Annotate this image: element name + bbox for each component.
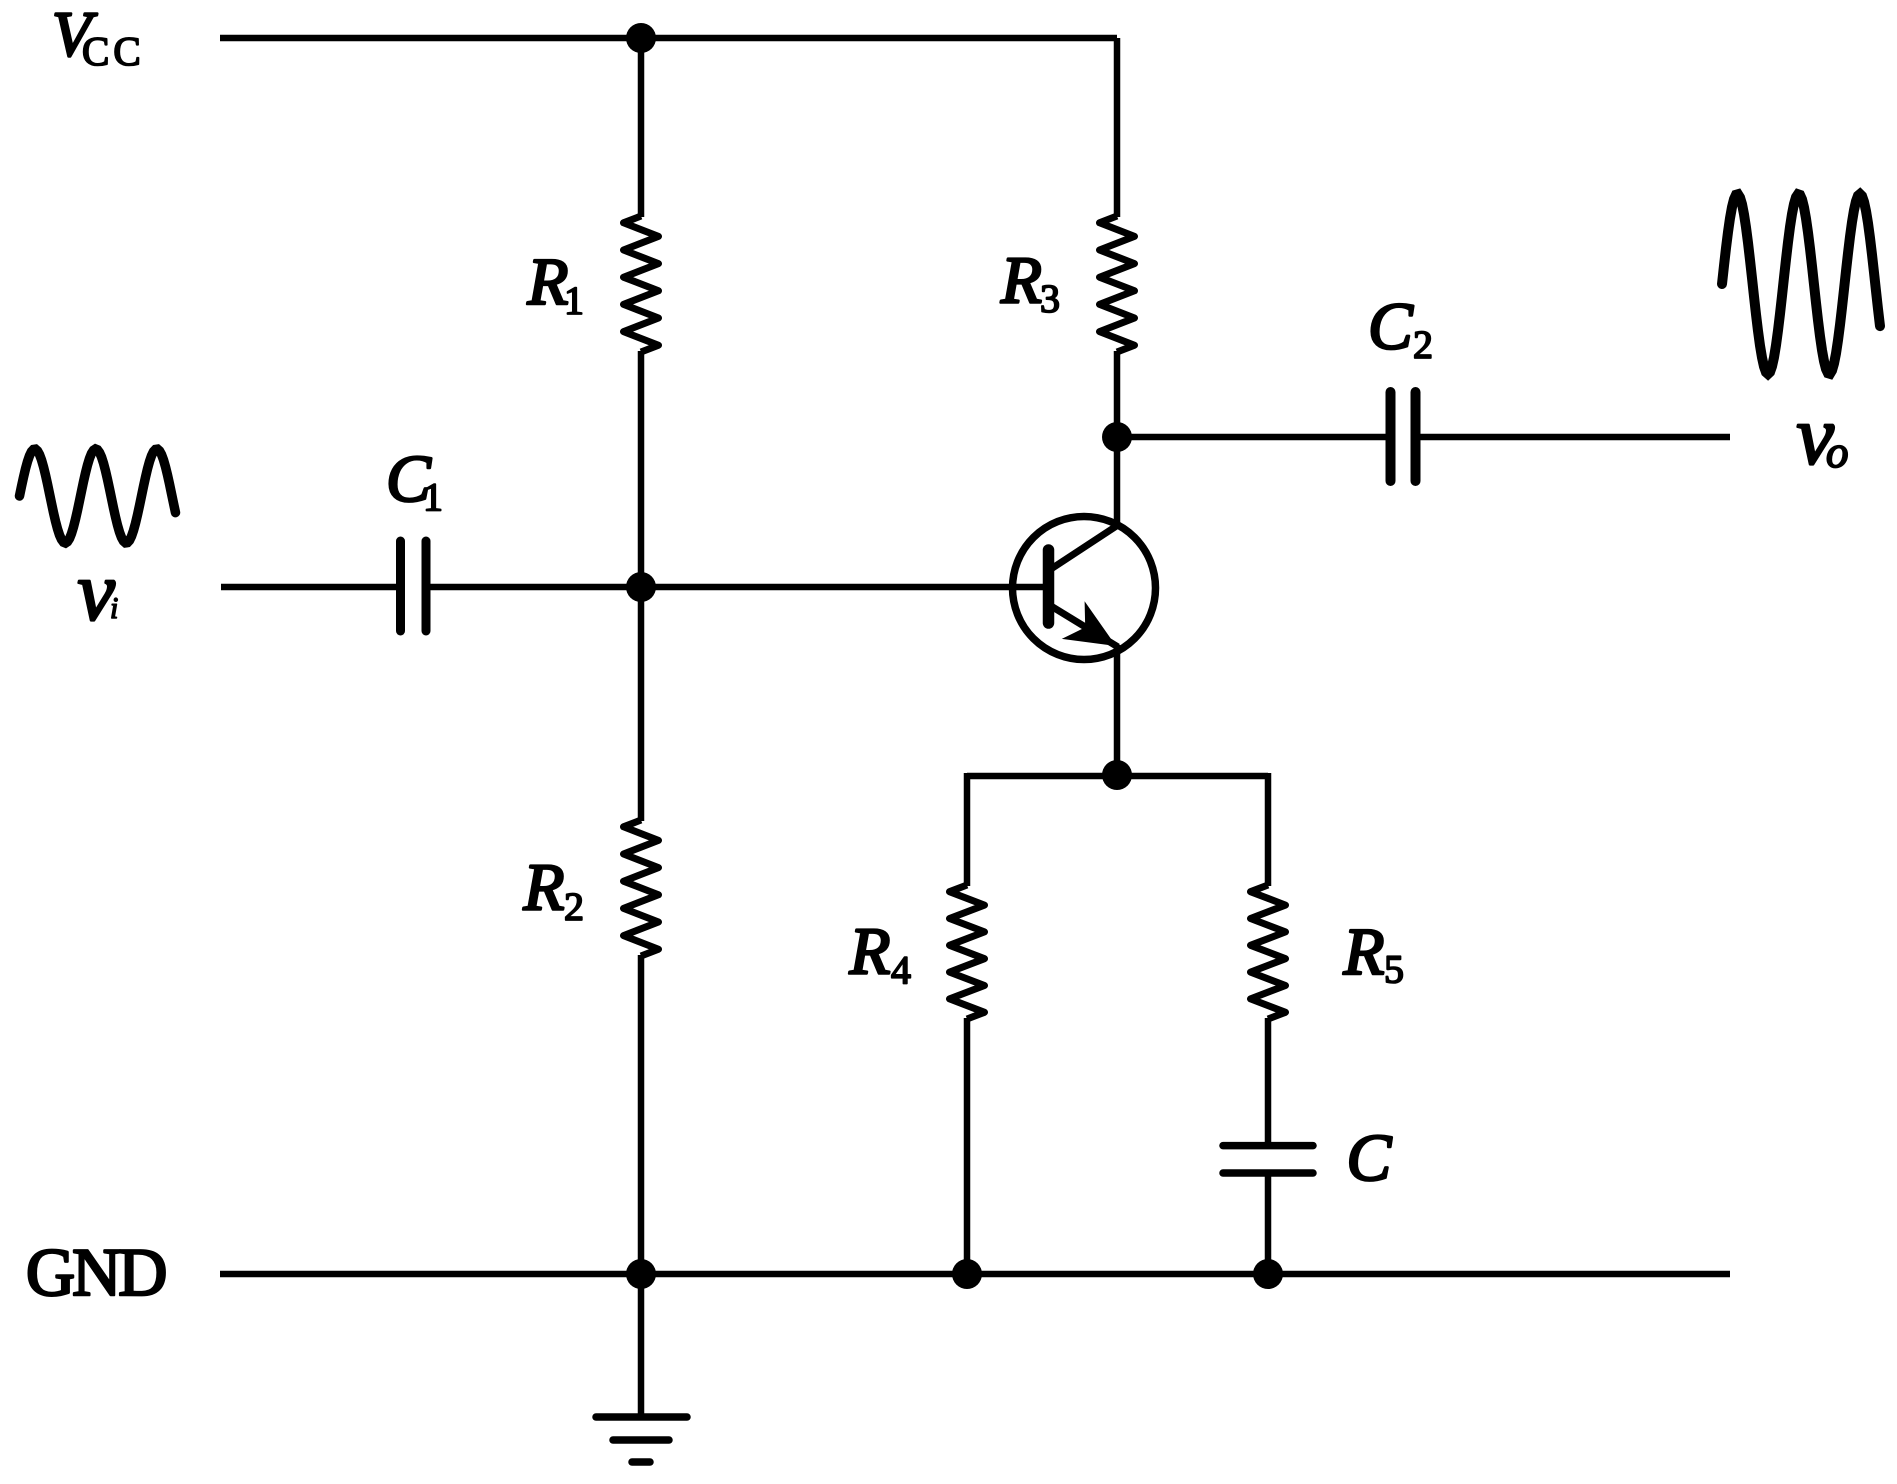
wire C1 to base	[429, 584, 1048, 591]
input sine wave	[20, 449, 176, 543]
wire emitter split horizontal	[967, 773, 1268, 780]
wire R4 top leg	[964, 773, 971, 886]
svg-text:R: R	[527, 245, 569, 319]
svg-text:GND: GND	[26, 1234, 165, 1310]
svg-text:i: i	[110, 592, 118, 625]
capacitor C (emitter bypass)	[1223, 1146, 1313, 1173]
node VCC-R1	[626, 23, 656, 53]
resistor R5	[1251, 885, 1286, 1019]
ground symbol	[596, 1417, 687, 1462]
svg-text:1: 1	[564, 278, 584, 323]
svg-text:R: R	[523, 851, 565, 925]
wire C2 to output	[1419, 434, 1730, 441]
resistor R1	[624, 216, 659, 352]
wire R1 top	[638, 38, 645, 217]
wire gnd stub	[638, 1274, 645, 1417]
wire C to gnd	[1265, 1172, 1272, 1274]
node gnd C	[1253, 1259, 1283, 1289]
svg-text:C: C	[1368, 290, 1414, 364]
resistor R4	[950, 885, 985, 1019]
node base	[626, 572, 656, 602]
output sine wave	[1722, 194, 1880, 374]
node gnd R2	[626, 1259, 656, 1289]
wire collector node to C2	[1117, 434, 1387, 441]
wire emitter to node	[1114, 645, 1121, 776]
svg-text:3: 3	[1040, 276, 1060, 321]
wire R5 to C	[1265, 1018, 1272, 1147]
svg-text:4: 4	[891, 948, 911, 993]
node collector out	[1102, 422, 1132, 452]
wire GND rail	[220, 1271, 1730, 1278]
wire input to C1	[221, 584, 397, 591]
wire R1 bottom to base node	[638, 351, 645, 821]
svg-text:CC: CC	[82, 28, 145, 74]
svg-text:o: o	[1826, 427, 1849, 477]
svg-text:R: R	[1000, 244, 1042, 318]
svg-text:2: 2	[1413, 322, 1433, 367]
svg-text:5: 5	[1384, 947, 1404, 992]
resistor R3	[1100, 216, 1135, 352]
transistor Q1 emitter diagonal	[1051, 606, 1118, 647]
transistor Q1 emitter arrowhead	[1062, 601, 1116, 646]
capacitor C2	[1391, 392, 1416, 481]
transistor Q1 circle	[1013, 517, 1156, 660]
svg-text:R: R	[1343, 915, 1385, 989]
svg-text:C: C	[1347, 1121, 1393, 1195]
transistor Q1 base bar	[1043, 550, 1055, 623]
svg-text:1: 1	[423, 475, 443, 520]
node gnd R4	[952, 1259, 982, 1289]
wire R3 top	[1114, 38, 1121, 217]
wire R4 bottom leg	[964, 1018, 971, 1274]
wire VCC rail	[220, 35, 1117, 42]
capacitor C1	[401, 541, 427, 631]
node emitter	[1102, 760, 1132, 790]
svg-text:2: 2	[564, 884, 584, 929]
transistor Q1 collector diagonal	[1051, 525, 1118, 569]
wire R2 bottom to gnd	[638, 955, 645, 1274]
svg-text:R: R	[849, 915, 891, 989]
resistor R2	[624, 820, 659, 956]
wire R3 bottom to collector	[1114, 351, 1121, 526]
wire R5 top leg	[1265, 773, 1272, 886]
